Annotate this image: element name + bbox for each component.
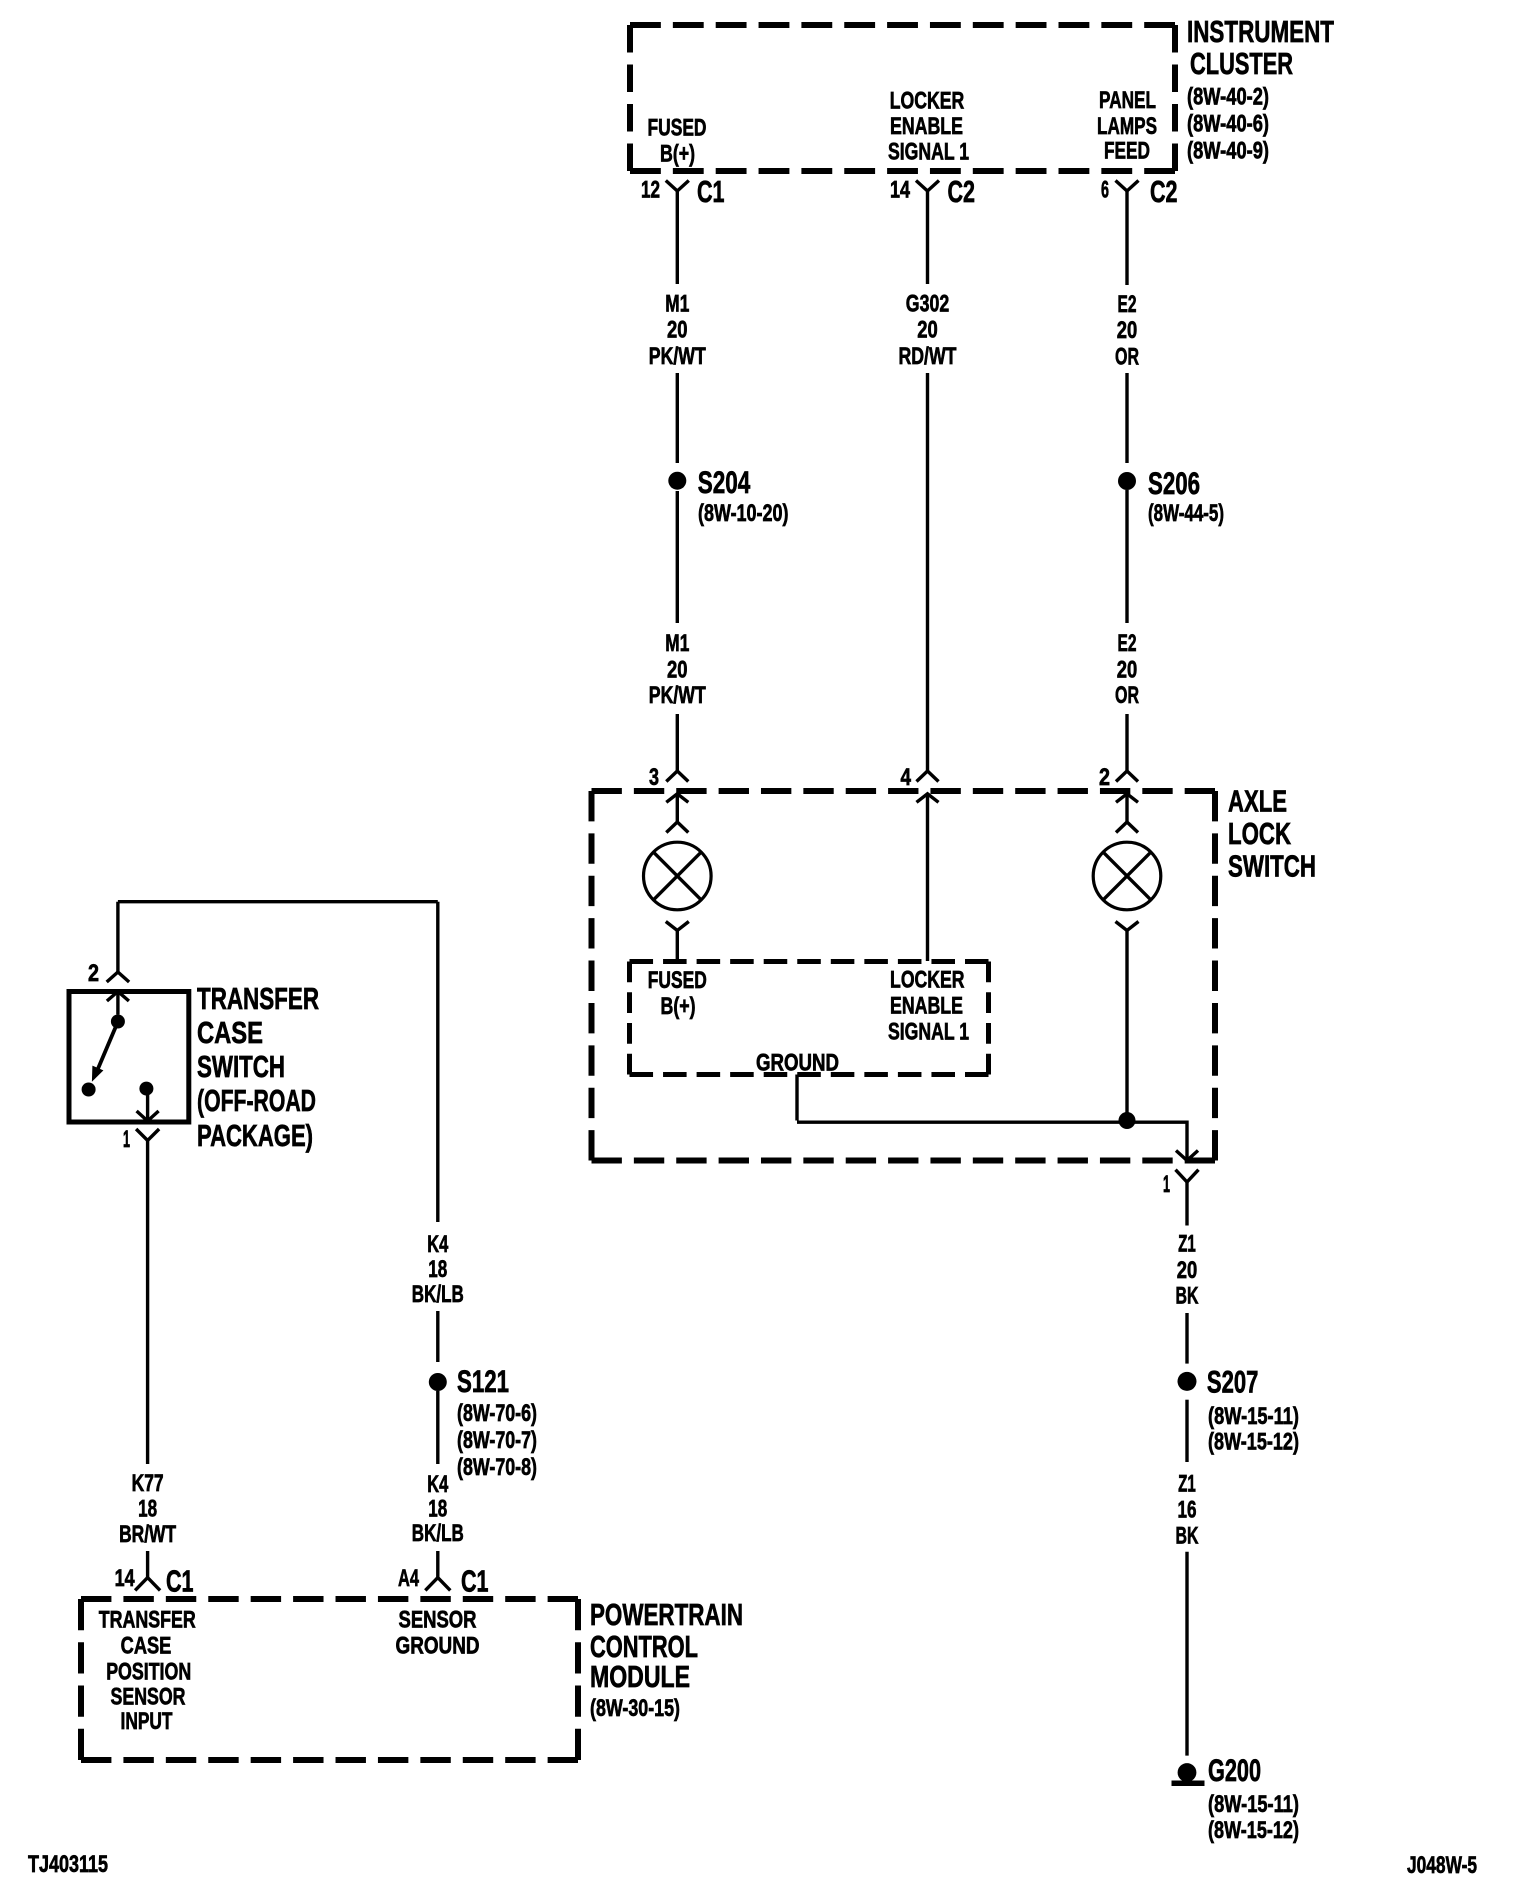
svg-text:(8W-44-5): (8W-44-5) <box>1148 500 1224 527</box>
svg-text:(8W-70-6): (8W-70-6) <box>457 1400 537 1427</box>
svg-text:BK/LB: BK/LB <box>412 1520 464 1547</box>
svg-text:M1: M1 <box>665 630 689 657</box>
svg-text:CLUSTER: CLUSTER <box>1190 46 1293 81</box>
svg-text:(8W-40-9): (8W-40-9) <box>1187 138 1269 165</box>
svg-text:4: 4 <box>901 764 912 791</box>
svg-text:C1: C1 <box>697 174 725 209</box>
svg-text:C2: C2 <box>948 174 976 209</box>
svg-text:A4: A4 <box>398 1565 419 1592</box>
svg-text:6: 6 <box>1101 177 1109 204</box>
svg-text:S206: S206 <box>1148 465 1200 501</box>
svg-text:2: 2 <box>88 960 99 987</box>
svg-text:MODULE: MODULE <box>590 1659 690 1694</box>
svg-text:BK: BK <box>1176 1283 1199 1310</box>
svg-text:TRANSFER: TRANSFER <box>197 981 319 1016</box>
svg-text:M1: M1 <box>665 291 689 318</box>
svg-text:SWITCH: SWITCH <box>197 1049 285 1084</box>
svg-text:14: 14 <box>890 177 910 204</box>
svg-text:OR: OR <box>1115 344 1139 371</box>
svg-text:SIGNAL 1: SIGNAL 1 <box>888 139 969 166</box>
svg-text:16: 16 <box>1178 1497 1197 1524</box>
svg-text:2: 2 <box>1099 764 1110 791</box>
svg-text:1: 1 <box>123 1126 130 1153</box>
svg-text:(8W-15-11): (8W-15-11) <box>1208 1791 1299 1818</box>
svg-text:(8W-15-11): (8W-15-11) <box>1208 1403 1299 1430</box>
svg-text:LOCKER: LOCKER <box>890 87 965 114</box>
svg-text:(8W-40-6): (8W-40-6) <box>1187 111 1269 138</box>
svg-text:SIGNAL 1: SIGNAL 1 <box>888 1019 969 1046</box>
svg-text:RD/WT: RD/WT <box>899 343 957 370</box>
svg-text:18: 18 <box>428 1496 447 1523</box>
svg-text:CASE: CASE <box>197 1015 263 1050</box>
svg-text:LOCKER: LOCKER <box>890 967 965 994</box>
svg-text:PACKAGE): PACKAGE) <box>197 1118 313 1153</box>
svg-text:S204: S204 <box>698 464 751 500</box>
svg-text:B(+): B(+) <box>660 141 695 168</box>
svg-text:18: 18 <box>428 1256 447 1283</box>
svg-text:14: 14 <box>115 1565 135 1592</box>
svg-text:(8W-15-12): (8W-15-12) <box>1208 1429 1299 1456</box>
svg-text:3: 3 <box>649 764 659 791</box>
svg-text:S207: S207 <box>1207 1364 1259 1400</box>
svg-text:ENABLE: ENABLE <box>890 113 963 140</box>
svg-text:(8W-30-15): (8W-30-15) <box>590 1695 680 1722</box>
svg-text:GROUND: GROUND <box>396 1633 480 1660</box>
svg-text:PANEL: PANEL <box>1099 87 1156 114</box>
svg-text:20: 20 <box>1177 1257 1198 1284</box>
svg-text:(8W-40-2): (8W-40-2) <box>1187 84 1269 111</box>
svg-text:C1: C1 <box>461 1564 489 1599</box>
svg-text:Z1: Z1 <box>1178 1471 1196 1498</box>
svg-text:C2: C2 <box>1150 174 1178 209</box>
svg-text:FUSED: FUSED <box>648 967 707 994</box>
svg-text:18: 18 <box>138 1496 157 1523</box>
svg-text:SENSOR: SENSOR <box>111 1684 186 1711</box>
svg-text:(8W-10-20): (8W-10-20) <box>698 500 789 527</box>
svg-text:K4: K4 <box>427 1231 448 1258</box>
svg-text:1: 1 <box>1163 1171 1170 1198</box>
svg-text:(8W-70-7): (8W-70-7) <box>457 1427 537 1454</box>
svg-text:TRANSFER: TRANSFER <box>99 1607 196 1634</box>
svg-text:G302: G302 <box>906 291 949 318</box>
svg-text:POWERTRAIN: POWERTRAIN <box>590 1597 743 1632</box>
svg-text:TJ403115: TJ403115 <box>28 1851 108 1878</box>
svg-text:K4: K4 <box>427 1471 448 1498</box>
svg-text:G200: G200 <box>1208 1752 1261 1788</box>
svg-text:POSITION: POSITION <box>106 1659 191 1686</box>
svg-text:INSTRUMENT: INSTRUMENT <box>1187 14 1334 49</box>
svg-text:ENABLE: ENABLE <box>890 993 963 1020</box>
svg-text:(OFF-ROAD: (OFF-ROAD <box>197 1083 316 1118</box>
svg-text:20: 20 <box>667 657 688 684</box>
svg-text:BR/WT: BR/WT <box>119 1521 176 1548</box>
svg-text:K77: K77 <box>132 1470 164 1497</box>
svg-text:FEED: FEED <box>1104 138 1150 165</box>
svg-text:AXLE: AXLE <box>1228 784 1287 819</box>
svg-text:SWITCH: SWITCH <box>1228 849 1316 884</box>
svg-text:BK/LB: BK/LB <box>412 1281 464 1308</box>
svg-text:LOCK: LOCK <box>1228 816 1291 851</box>
svg-text:S121: S121 <box>457 1363 509 1399</box>
svg-text:Z1: Z1 <box>1178 1231 1196 1258</box>
svg-text:(8W-15-12): (8W-15-12) <box>1208 1817 1299 1844</box>
svg-text:(8W-70-8): (8W-70-8) <box>457 1454 537 1481</box>
svg-text:INPUT: INPUT <box>121 1708 173 1735</box>
svg-text:OR: OR <box>1115 682 1139 709</box>
svg-text:E2: E2 <box>1118 630 1137 657</box>
svg-text:BK: BK <box>1176 1523 1199 1550</box>
svg-text:PK/WT: PK/WT <box>649 682 706 709</box>
svg-text:LAMPS: LAMPS <box>1097 113 1157 140</box>
svg-text:20: 20 <box>917 317 938 344</box>
svg-text:PK/WT: PK/WT <box>649 343 706 370</box>
svg-text:FUSED: FUSED <box>648 115 707 142</box>
svg-text:SENSOR: SENSOR <box>399 1607 477 1634</box>
svg-text:J048W-5: J048W-5 <box>1407 1852 1477 1879</box>
svg-text:20: 20 <box>667 317 688 344</box>
svg-text:20: 20 <box>1117 317 1138 344</box>
svg-text:GROUND: GROUND <box>756 1050 839 1077</box>
svg-text:20: 20 <box>1117 657 1138 684</box>
svg-text:C1: C1 <box>166 1564 194 1599</box>
svg-text:12: 12 <box>641 177 660 204</box>
svg-text:CASE: CASE <box>121 1633 172 1660</box>
svg-text:E2: E2 <box>1118 291 1137 318</box>
svg-text:B(+): B(+) <box>661 993 696 1020</box>
